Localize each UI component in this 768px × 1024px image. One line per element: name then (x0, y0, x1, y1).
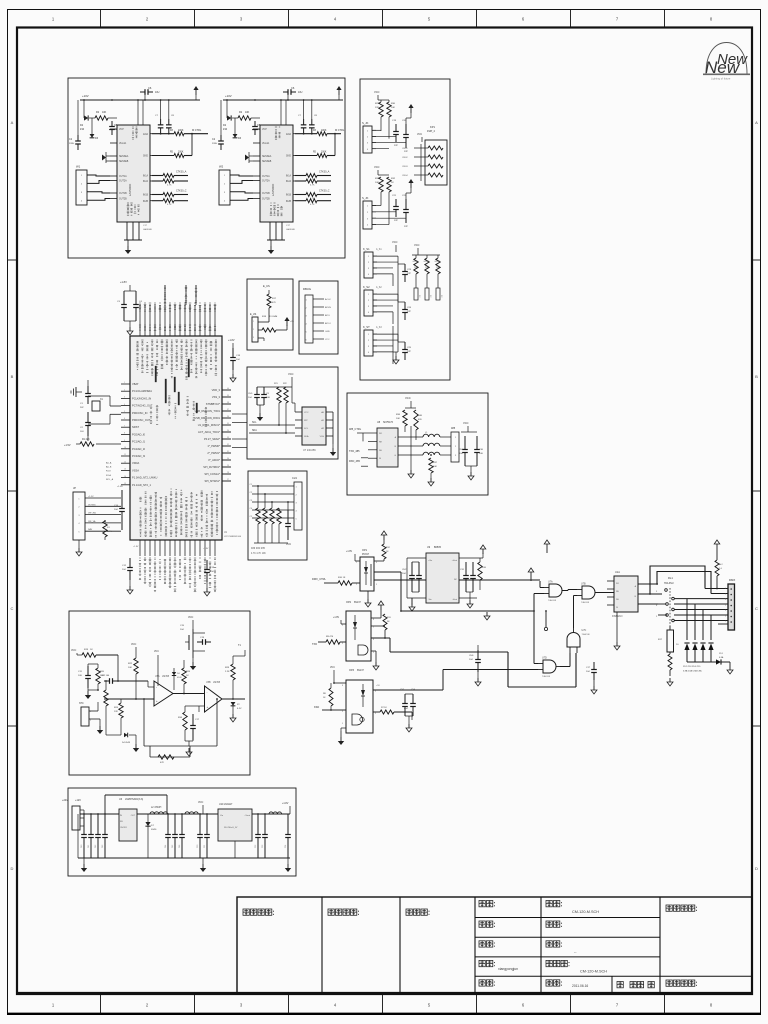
svg-text:6.8A: 6.8A (719, 656, 724, 659)
svg-text:15: 15 (124, 483, 126, 485)
svg-text:33: 33 (227, 437, 229, 439)
svg-text:74HC08: 74HC08 (542, 676, 551, 678)
svg-text:ENA: ENA (143, 133, 148, 136)
svg-text:OUT1A: OUT1A (262, 175, 270, 178)
svg-text:C46: C46 (179, 845, 181, 848)
svg-text:USB_DM/CON_RXD1: USB_DM/CON_RXD1 (194, 416, 220, 420)
svg-text:+10V: +10V (225, 94, 232, 98)
svg-text:SN75176: SN75176 (383, 421, 394, 424)
svg-text:7: 7 (373, 627, 374, 629)
svg-text:10: 10 (124, 447, 126, 449)
svg-text:14: 14 (124, 476, 126, 478)
svg-text:2*_PWM1*: 2*_PWM1* (207, 451, 220, 455)
svg-text:ATDI: ATDI (325, 314, 330, 317)
svg-text:K_ST: K_ST (363, 325, 370, 329)
svg-text:C43: C43 (102, 845, 104, 848)
svg-text:S_JK: S_JK (362, 196, 369, 200)
svg-text:Vboot1: Vboot1 (262, 142, 270, 145)
svg-text:-Vout: -Vout (452, 598, 457, 601)
svg-text:C: C (11, 606, 14, 611)
svg-text:+1.8V: +1.8V (346, 551, 353, 553)
svg-text:VCC: VCC (304, 412, 309, 414)
svg-text:-: - (156, 685, 157, 689)
svg-text:DMX: DMX (729, 578, 735, 582)
svg-text:PD0/OSC_OUT: PD0/OSC_OUT (132, 418, 151, 422)
svg-text:LM358: LM358 (162, 676, 170, 678)
svg-text:CM-120-M.SCH: CM-120-M.SCH (580, 969, 607, 973)
svg-text:2: 2 (356, 584, 357, 586)
svg-text:8: 8 (342, 685, 343, 687)
svg-text:CTK30_A: CTK30_A (176, 171, 187, 174)
svg-text:WP: WP (304, 420, 308, 422)
svg-text:7: 7 (124, 425, 125, 427)
svg-text:K_S2: K_S2 (363, 285, 370, 289)
svg-text:U7B: U7B (581, 583, 586, 586)
svg-text:OP2: OP2 (346, 601, 352, 604)
svg-text:C6: C6 (291, 86, 295, 90)
svg-text:VCP: VCP (262, 129, 267, 131)
svg-text:U7A: U7A (548, 581, 553, 584)
svg-text:1*_PWM0*: 1*_PWM0* (207, 444, 220, 448)
svg-text:NRST: NRST (132, 425, 139, 429)
svg-text:Z10: Z10 (80, 128, 85, 131)
svg-text:485_CTRL: 485_CTRL (349, 428, 362, 431)
svg-text:22P: 22P (394, 145, 398, 147)
svg-text:GND: GND (143, 156, 148, 158)
svg-text:2: 2 (253, 329, 254, 331)
svg-text:4SIP_4: 4SIP_4 (427, 130, 436, 133)
svg-text:40: 40 (227, 388, 229, 390)
svg-text:+1.8V: +1.8V (282, 802, 289, 805)
svg-text:2: 2 (725, 594, 726, 596)
svg-text:PC2/AD_I2: PC2/AD_I2 (132, 447, 146, 451)
svg-text:RCL_A: RCL_A (106, 478, 114, 481)
svg-text:4.7K: 4.7K (107, 531, 112, 533)
svg-text:6: 6 (373, 639, 374, 641)
svg-text:CU2: CU2 (402, 569, 407, 571)
svg-text:2: 2 (124, 389, 125, 391)
svg-text:1: 1 (124, 382, 125, 384)
svg-text:S_JK: S_JK (362, 121, 369, 125)
svg-text:VCC: VCC (392, 240, 398, 244)
svg-text:C41: C41 (88, 845, 90, 848)
svg-text:9: 9 (124, 440, 125, 442)
svg-text:LM2576ADJ(3.3): LM2576ADJ(3.3) (125, 798, 143, 801)
svg-text:E_US: E_US (263, 284, 270, 288)
svg-text:2.2K: 2.2K (225, 671, 230, 673)
svg-text:OUT1B: OUT1B (262, 193, 270, 195)
svg-text:VCC: VCC (198, 801, 203, 804)
svg-text:3: 3 (376, 584, 377, 586)
svg-text:2011.06.16: 2011.06.16 (572, 984, 588, 988)
svg-text:OUT2B: OUT2B (119, 199, 127, 201)
svg-text:35: 35 (227, 423, 229, 425)
svg-text:B0505: B0505 (434, 546, 442, 549)
svg-text:NTC: NTC (79, 703, 84, 705)
svg-text:6: 6 (124, 418, 125, 420)
svg-text:VSS: VSS (320, 436, 325, 438)
svg-text:+1.8V: +1.8V (120, 280, 127, 284)
svg-text:22P: 22P (394, 220, 398, 222)
svg-text:2: 2 (342, 625, 343, 627)
svg-text:ZD2 ZD3 ZD4 ZD5: ZD2 ZD3 ZD4 ZD5 (683, 666, 701, 668)
svg-text:10K: 10K (396, 418, 400, 420)
svg-text:JP: JP (73, 486, 76, 490)
svg-text:LM358: LM358 (213, 682, 221, 684)
svg-text:+1.5V: +1.5V (88, 496, 94, 498)
svg-text:PCLK/NCHG_IN: PCLK/NCHG_IN (132, 396, 151, 400)
svg-text:SDA: SDA (252, 429, 257, 432)
svg-text:VCC: VCC (188, 616, 193, 619)
svg-text:+1.5V: +1.5V (64, 444, 71, 447)
svg-text:+1.8V: +1.8V (228, 339, 235, 342)
svg-text:VCP: VCP (119, 129, 124, 131)
svg-text:6N137: 6N137 (357, 670, 364, 672)
svg-text:2: 2 (90, 720, 91, 722)
svg-text:485: 485 (451, 427, 456, 430)
svg-text:SENSEB: SENSEB (119, 161, 129, 163)
svg-text:VCC: VCC (374, 165, 380, 169)
svg-text:+Vout: +Vout (244, 814, 250, 817)
svg-text:SCL: SCL (252, 422, 257, 424)
svg-text:10K: 10K (391, 107, 395, 109)
svg-text:36: 36 (227, 416, 229, 418)
svg-text:CL9: CL9 (292, 476, 297, 480)
svg-text:+1.8V: +1.8V (203, 548, 209, 550)
svg-text:220U: 220U (69, 143, 75, 145)
svg-text:U7D: U7D (542, 657, 547, 660)
svg-text:4.7K 4.7K 10K: 4.7K 4.7K 10K (251, 553, 266, 555)
svg-text:C: C (755, 606, 758, 611)
svg-text:HCL3NU: HCL3NU (664, 582, 674, 585)
svg-text:OP1: OP1 (362, 549, 368, 552)
svg-text:3: 3 (124, 397, 125, 399)
svg-text:RO: RO (379, 433, 383, 435)
svg-text:W1: W1 (76, 165, 81, 169)
svg-text:43 OHM: 43 OHM (269, 316, 277, 318)
svg-text:C42: C42 (95, 845, 97, 848)
svg-text:+10V: +10V (82, 94, 89, 98)
svg-text:13: 13 (124, 469, 126, 471)
svg-text:8: 8 (373, 619, 374, 621)
svg-text:VCC: VCC (417, 133, 422, 136)
svg-text:RXD_485: RXD_485 (349, 460, 360, 463)
svg-text:22P: 22P (407, 273, 411, 275)
svg-text:3*_ADC0*: 3*_ADC0* (208, 458, 220, 462)
svg-text:29: 29 (227, 465, 229, 467)
svg-text:30: 30 (227, 458, 229, 460)
svg-text:PC3/AD_I3: PC3/AD_I3 (132, 454, 146, 458)
svg-text:U7C: U7C (582, 629, 587, 632)
svg-text:10U: 10U (80, 431, 84, 433)
svg-text:ACLK: ACLK (325, 298, 331, 301)
svg-text:TXD: TXD (312, 643, 317, 646)
svg-text:GD02: GD02 (424, 261, 430, 263)
svg-text:VCC: VCC (414, 243, 420, 247)
svg-text:C6: C6 (148, 86, 152, 90)
svg-text:RAV: RAV (88, 528, 93, 531)
svg-text:22P: 22P (407, 351, 411, 353)
svg-text:4.7K: 4.7K (310, 204, 315, 206)
svg-text:LPC2368FBD100: LPC2368FBD100 (224, 536, 242, 538)
svg-text:IN1A: IN1A (286, 175, 292, 178)
svg-text:NC: NC (454, 579, 458, 581)
svg-text:VCC: VCC (405, 396, 411, 400)
svg-text:DBUG: DBUG (303, 287, 311, 291)
svg-text:U10 LM1117: U10 LM1117 (219, 803, 233, 806)
svg-text:U5A: U5A (155, 675, 160, 678)
svg-text:A: A (11, 120, 14, 125)
svg-text:VDTMG: VDTMG (88, 504, 96, 506)
svg-text:VBAT: VBAT (132, 382, 139, 386)
svg-text:B: B (11, 374, 14, 379)
svg-text:P0.27_SDA0*: P0.27_SDA0* (204, 437, 220, 441)
svg-text:VDD_3: VDD_3 (212, 388, 221, 392)
svg-text:6.2V: 6.2V (237, 708, 242, 710)
svg-text:6.8A 6.8A 6.8A 6.8A: 6.8A 6.8A 6.8A 6.8A (683, 670, 702, 673)
svg-text:+1.8V: +1.8V (333, 617, 340, 619)
svg-text:3: 3 (375, 713, 376, 715)
svg-text:VCC: VCC (286, 543, 291, 546)
svg-text:OUT1A: OUT1A (119, 175, 127, 178)
svg-text:IN2A: IN2A (143, 180, 149, 183)
svg-text:CN01: CN01 (402, 148, 408, 150)
svg-text:OUT2A: OUT2A (119, 180, 127, 183)
svg-text:C51: C51 (204, 845, 206, 848)
svg-text:U1_RXD1_MISO1*: U1_RXD1_MISO1* (198, 423, 220, 427)
svg-text:C40: C40 (81, 845, 83, 848)
svg-text:D: D (11, 866, 14, 871)
svg-text:SENSEB: SENSEB (262, 161, 272, 163)
svg-text:ON/OFF: ON/OFF (120, 827, 128, 829)
svg-text:PC817: PC817 (362, 554, 370, 556)
svg-text:+5V: +5V (376, 685, 380, 687)
svg-text:R7 1K: R7 1K (381, 707, 387, 709)
svg-text:7: 7 (725, 621, 726, 623)
svg-text:C12 104: C12 104 (101, 675, 110, 677)
svg-text:IN2B: IN2B (143, 201, 149, 203)
svg-text:R10 1K: R10 1K (338, 577, 346, 579)
svg-text:34: 34 (227, 430, 229, 432)
svg-text:PD0/OSC_IN: PD0/OSC_IN (132, 411, 148, 415)
svg-text:ACT_AD11_TXD1*: ACT_AD11_TXD1* (198, 430, 220, 434)
svg-text:C44: C44 (165, 845, 167, 848)
svg-text:38: 38 (227, 402, 229, 404)
svg-text:RL1: RL1 (668, 576, 673, 580)
svg-text:4: 4 (124, 404, 125, 406)
svg-text:R9 470: R9 470 (326, 636, 334, 638)
svg-text:SS26: SS26 (151, 829, 157, 831)
svg-text:A: A (755, 120, 758, 125)
svg-text:3: 3 (725, 599, 726, 601)
svg-text:IN1B: IN1B (143, 195, 149, 197)
svg-text:VSSA: VSSA (132, 468, 139, 472)
svg-text:10K: 10K (245, 111, 250, 114)
svg-text:5: 5 (342, 723, 343, 725)
svg-text:A0_A: A0_A (106, 462, 112, 465)
svg-text:SDA: SDA (304, 435, 309, 438)
svg-text:VCC: VCC (330, 667, 335, 669)
svg-text:LA6500D: LA6500D (286, 228, 296, 231)
svg-text:Z10: Z10 (223, 128, 228, 131)
svg-text:12: 12 (124, 461, 126, 463)
svg-text:74HC08: 74HC08 (548, 600, 557, 602)
svg-text:4: 4 (725, 605, 726, 607)
svg-text:VCC: VCC (131, 643, 136, 646)
svg-text:L2 470UH: L2 470UH (151, 807, 162, 809)
svg-text:22P: 22P (404, 226, 408, 228)
svg-text:A_S3: A_S3 (376, 326, 382, 329)
svg-text:DMX_CTRL: DMX_CTRL (312, 577, 327, 581)
svg-text:CU7: CU7 (459, 449, 464, 451)
svg-text:IN2B: IN2B (286, 201, 292, 203)
svg-text:SD-230mV_5V: SD-230mV_5V (224, 827, 238, 829)
svg-text:1: 1 (356, 562, 357, 564)
svg-text:New: New (717, 51, 748, 68)
svg-text:KSD: KSD (314, 706, 319, 709)
svg-text:R1.A: R1.A (106, 474, 111, 477)
svg-text:+Vout: +Vout (452, 559, 458, 562)
svg-text:CTK30_C: CTK30_C (176, 190, 187, 193)
svg-text:xiangyongjun: xiangyongjun (498, 967, 518, 971)
svg-text:CN04: CN04 (402, 175, 408, 177)
svg-text:KP1: KP1 (430, 125, 435, 129)
svg-text:M CTRL: M CTRL (192, 129, 202, 132)
svg-text:R1.8: R1.8 (106, 471, 111, 473)
svg-text:+1.8V: +1.8V (117, 486, 123, 488)
svg-text:VCC: VCC (374, 90, 380, 94)
svg-text:CN02: CN02 (402, 157, 408, 159)
svg-text:+24V: +24V (62, 799, 68, 802)
svg-text:10U: 10U (479, 453, 483, 455)
svg-text:A0_B: A0_B (106, 466, 112, 469)
svg-text:CU6: CU6 (469, 655, 474, 657)
svg-text:6: 6 (725, 616, 726, 618)
svg-text:R1 22K: R1 22K (82, 439, 90, 441)
svg-text:B: B (755, 374, 758, 379)
svg-text:31: 31 (227, 451, 229, 453)
svg-text:P1.0/AD_NT2_UWKU: P1.0/AD_NT2_UWKU (132, 476, 157, 480)
svg-text:VCC: VCC (71, 649, 76, 652)
svg-text:11: 11 (124, 454, 126, 456)
svg-text:4.7K: 4.7K (310, 185, 315, 187)
svg-text:C54: C54 (285, 845, 287, 848)
svg-text:VCC: VCC (288, 372, 294, 376)
svg-text:74HC08: 74HC08 (581, 602, 590, 604)
svg-text:4.7K: 4.7K (167, 204, 172, 206)
svg-text:ATMS: ATMS (325, 306, 331, 309)
svg-text:+: + (207, 705, 209, 709)
svg-text:100K: 100K (178, 152, 184, 154)
svg-text:10K: 10K (433, 466, 437, 468)
svg-text:47K: 47K (160, 762, 164, 764)
svg-text:12K: 12K (114, 711, 118, 713)
svg-text:ENA: ENA (286, 133, 291, 136)
svg-text:39: 39 (227, 395, 229, 397)
svg-text:CU5: CU5 (248, 393, 253, 395)
svg-text:10U: 10U (266, 397, 270, 399)
svg-text:PCT/NCHG_OUT: PCT/NCHG_OUT (132, 404, 153, 408)
svg-text:10K: 10K (375, 182, 379, 184)
svg-text:32: 32 (227, 444, 229, 446)
svg-text:74HC08: 74HC08 (582, 634, 591, 636)
svg-text:VDDA: VDDA (132, 461, 139, 465)
svg-text:IN2A: IN2A (286, 180, 292, 183)
svg-text:10K: 10K (102, 111, 107, 114)
svg-text:VCC: VCC (463, 421, 469, 425)
svg-text:C45: C45 (172, 845, 174, 848)
svg-text:100K: 100K (321, 130, 327, 132)
svg-text:1: 1 (725, 588, 726, 590)
svg-text:CTK30_A: CTK30_A (319, 171, 330, 174)
svg-text:CN03: CN03 (402, 166, 408, 168)
svg-text:3: 3 (253, 337, 254, 339)
svg-text:22K: 22K (375, 107, 379, 109)
svg-text:SPI_0UTRD1*: SPI_0UTRD1* (203, 465, 220, 469)
svg-text:10U: 10U (78, 675, 82, 677)
svg-text:Vboot1: Vboot1 (119, 142, 127, 145)
svg-text:P1.1/AD_NT2_1: P1.1/AD_NT2_1 (132, 483, 151, 487)
svg-text:5: 5 (373, 652, 374, 654)
svg-text:OUT2B: OUT2B (262, 199, 270, 201)
svg-text:M CTRL: M CTRL (335, 129, 345, 132)
svg-text:CM-120-M.SCH: CM-120-M.SCH (572, 910, 599, 914)
svg-text:GND: GND (325, 331, 330, 333)
svg-text:C53: C53 (262, 845, 264, 848)
svg-text:PC0/AD_I0: PC0/AD_I0 (132, 432, 146, 436)
svg-text:27: 27 (227, 479, 229, 481)
svg-text:E_US: E_US (250, 313, 257, 316)
svg-text:A_S1: A_S1 (376, 248, 382, 251)
svg-text:+12V: +12V (75, 799, 81, 802)
svg-text:ATDO: ATDO (325, 322, 331, 325)
svg-text:220U: 220U (212, 143, 218, 145)
svg-text:8: 8 (124, 433, 125, 435)
svg-text:37: 37 (227, 409, 229, 411)
svg-text:1: 1 (253, 321, 254, 323)
svg-text:SENSEA: SENSEA (119, 155, 129, 158)
svg-text:10U: 10U (298, 91, 303, 94)
svg-text:CTK30_C: CTK30_C (319, 190, 330, 193)
svg-text:10U: 10U (155, 91, 160, 94)
svg-text:U1A: U1A (615, 571, 620, 574)
svg-text:K_S1: K_S1 (363, 247, 370, 251)
svg-text:IN1B: IN1B (286, 195, 292, 197)
svg-text:VCC: VCC (154, 651, 159, 653)
svg-text:10K: 10K (128, 667, 132, 669)
svg-text:5: 5 (124, 411, 125, 413)
svg-text:2: 2 (375, 691, 376, 693)
svg-text:RO: RO (616, 583, 619, 585)
svg-text:+: + (156, 699, 158, 703)
svg-text:VSS_3: VSS_3 (212, 395, 221, 399)
svg-text:100K: 100K (178, 130, 184, 132)
svg-text:VCC: VCC (325, 339, 330, 341)
svg-text:100K: 100K (321, 152, 327, 154)
svg-text:C50: C50 (197, 845, 199, 848)
svg-text:STNBBY10*: STNBBY10* (206, 402, 220, 406)
svg-text:SENSEA: SENSEA (262, 155, 272, 158)
svg-text:18F_RA: 18F_RA (88, 512, 96, 515)
svg-text:SPI_MTW11*: SPI_MTW11* (204, 479, 220, 483)
svg-text:28: 28 (227, 472, 229, 474)
svg-text:Lighting of future: Lighting of future (711, 77, 731, 81)
svg-text:LA6500D: LA6500D (128, 183, 132, 196)
svg-text:R39 R34 R35: R39 R34 R35 (251, 548, 266, 550)
svg-text:C52: C52 (255, 845, 257, 848)
svg-text:18F_VA: 18F_VA (88, 520, 96, 523)
svg-text:USB_DM/CON_TXD1: USB_DM/CON_TXD1 (195, 409, 221, 413)
